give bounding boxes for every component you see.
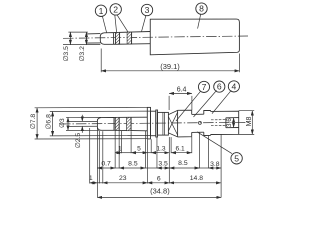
- body top/bottom edges with grooves: [114, 32, 151, 45]
- pin (3.2 dia tip screw): [86, 34, 100, 44]
- ext lines for dia dims: [63, 32, 100, 45]
- dim row4 line (34.8): [97, 196, 221, 198]
- dia2.5 arrows outside: [81, 115, 83, 122]
- slot in M8 block: [226, 118, 239, 128]
- insulator band 2: [127, 32, 132, 44]
- svg-text:∅7.8: ∅7.8: [30, 114, 37, 130]
- svg-text:1: 1: [89, 175, 93, 182]
- dim row2 line: [97, 167, 221, 169]
- svg-text:∅3.2: ∅3.2: [79, 46, 86, 62]
- dim M8 line: [251, 111, 253, 135]
- svg-text:2: 2: [113, 4, 118, 14]
- dia6.8 dim line: [52, 112, 54, 136]
- callout 5: [231, 153, 242, 164]
- block: [158, 112, 169, 135]
- callout 6: [214, 81, 225, 92]
- svg-text:M8: M8: [246, 117, 253, 127]
- svg-text:3.6: 3.6: [226, 118, 233, 127]
- dim 3.6: [233, 118, 235, 128]
- dia7.8 ext lines: [35, 107, 148, 139]
- centerline top view: [63, 36, 248, 38]
- callout 1: [95, 5, 106, 16]
- collar ring B (6.8): [151, 111, 156, 136]
- body edges bottom view: [114, 117, 147, 131]
- svg-text:6: 6: [217, 82, 222, 92]
- callout 7: [198, 81, 209, 92]
- extension verticals below part: [89, 128, 91, 184]
- dim row3 line: [90, 182, 221, 184]
- svg-text:∅2.5: ∅2.5: [75, 133, 82, 149]
- collar ring C: [156, 110, 158, 137]
- svg-text:0.7: 0.7: [101, 161, 111, 168]
- handle cylinder: [150, 19, 239, 55]
- barrel hole: [198, 121, 201, 124]
- nose bottom view: [97, 117, 114, 130]
- dia6.8 ext lines: [50, 111, 151, 136]
- svg-text:8.5: 8.5: [178, 160, 188, 167]
- svg-text:(34.8): (34.8): [150, 186, 170, 195]
- insulator band 1: [116, 33, 120, 45]
- dim 6.4 ext: [169, 96, 192, 110]
- callout numbers: [99, 4, 240, 164]
- svg-text:1: 1: [118, 145, 122, 152]
- svg-text:23: 23: [119, 175, 127, 182]
- svg-text:(39.1): (39.1): [160, 62, 180, 71]
- svg-text:5: 5: [137, 145, 141, 152]
- svg-text:8.5: 8.5: [128, 161, 138, 168]
- callout 4: [228, 81, 239, 92]
- svg-text:8: 8: [199, 4, 204, 14]
- dim M8 ticks: [239, 111, 255, 135]
- svg-text:4: 4: [232, 81, 237, 91]
- svg-text:1: 1: [99, 6, 104, 16]
- dia3 ext lines: [66, 117, 101, 130]
- cone hidden crossing: [168, 112, 177, 135]
- barrel: [192, 114, 204, 132]
- M8 block: [211, 111, 239, 134]
- block groove: [163, 112, 165, 135]
- dim dia3.2 line: [85, 32, 87, 45]
- svg-text:6.4: 6.4: [177, 87, 187, 94]
- dim 6.4 line: [169, 92, 192, 94]
- dim dia3.5 line: [69, 32, 71, 45]
- edge: [130, 117, 132, 130]
- svg-text:∅3: ∅3: [59, 118, 66, 128]
- pin bottom view: [69, 121, 98, 126]
- callout 8: [196, 3, 207, 14]
- flange: [204, 110, 211, 135]
- dim (39.1): [101, 49, 239, 73]
- svg-text:5: 5: [234, 153, 239, 163]
- collar ring A (7.8): [147, 107, 150, 138]
- band 1 bottom: [115, 117, 119, 130]
- svg-text:∅6.8: ∅6.8: [45, 114, 52, 130]
- hidden hole dashes: [211, 120, 226, 126]
- nose (plug tip bullet): [100, 33, 113, 45]
- cone transition: [168, 110, 177, 136]
- dim row1 line: [115, 152, 191, 154]
- svg-text:7: 7: [202, 82, 207, 92]
- callout 2: [110, 4, 121, 15]
- edge: [118, 117, 120, 130]
- node edge: [119, 32, 121, 44]
- dia3 dim line: [67, 117, 69, 130]
- dia7.8 dim line: [36, 108, 38, 139]
- band 2 bottom: [127, 117, 132, 130]
- svg-text:3.8: 3.8: [210, 161, 220, 168]
- svg-text:3.5: 3.5: [158, 161, 168, 168]
- centerline bottom view: [60, 122, 250, 124]
- callout 3: [141, 4, 152, 15]
- svg-text:6.1: 6.1: [176, 145, 185, 152]
- groove: [114, 117, 116, 130]
- bell cup: [178, 110, 192, 137]
- svg-text:6: 6: [157, 175, 161, 182]
- svg-text:3: 3: [145, 5, 150, 15]
- svg-text:∅3.5: ∅3.5: [63, 46, 70, 62]
- svg-text:1.3: 1.3: [156, 145, 165, 152]
- svg-text:14.8: 14.8: [190, 175, 203, 182]
- groove: [115, 33, 117, 45]
- sleeve edge: [131, 32, 133, 44]
